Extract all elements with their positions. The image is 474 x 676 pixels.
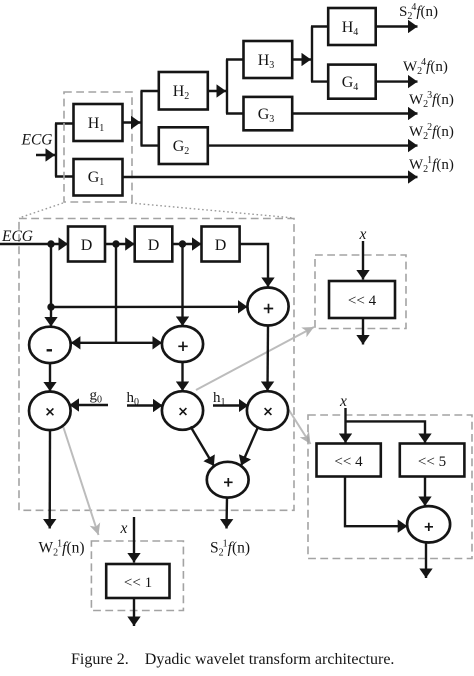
svg-text:W22f(n): W22f(n) (409, 122, 454, 142)
wire A3 output S2^1 (225, 498, 228, 529)
wire G1 output arrow (123, 176, 418, 178)
delay D1 (68, 227, 105, 262)
wire tap after D2 to adder A2 (181, 244, 183, 326)
svg-text:<< 4: << 4 (334, 454, 363, 470)
wire H2 output arrow (208, 90, 226, 92)
svg-text:<< 1: << 1 (124, 575, 152, 591)
wire shifter <<5 to adder A4 (424, 477, 426, 507)
wire M3 to adder A3 diagonal (241, 427, 258, 466)
filter G4 (328, 65, 376, 99)
wire H1 output arrow (123, 121, 141, 123)
dashed box shifter1 (91, 541, 183, 611)
svg-text:S21f(n): S21f(n) (210, 539, 250, 559)
wire D1 to D2 (105, 243, 135, 245)
node junction dot 3 (179, 240, 186, 247)
wire splitter to H2/G2 (141, 91, 159, 146)
label S2^4 f(n) (399, 2, 438, 22)
delay D3 (202, 227, 240, 262)
wire H4 output arrow (376, 25, 418, 27)
wire G4 output arrow (376, 80, 418, 82)
wire G3 output arrow (292, 112, 417, 114)
gray callout arrow M1 to shifter1 (62, 423, 99, 535)
wire G2 output arrow (208, 144, 418, 146)
svg-text:x: x (339, 393, 347, 410)
subtractor S1 (-) (29, 327, 71, 363)
gray callout arrow M2 to shifter4 (196, 327, 314, 390)
wire g0 into M1 (70, 404, 109, 406)
wire tap x(n) down (50, 244, 52, 327)
multiplier M2 (x h0) (162, 391, 203, 430)
wire splitter to H3/G3 (226, 60, 244, 114)
filter H1 (74, 104, 123, 141)
wire splitter to H1/G1 (55, 124, 74, 177)
dashed box shifter4 (315, 255, 406, 329)
wire adder A4 output (425, 543, 427, 579)
label W2^1 f(n) top (409, 155, 454, 175)
label x (shifter4 input) (359, 226, 367, 243)
filter H2 (159, 72, 208, 110)
wire tap after D1 down (115, 244, 117, 343)
shifter <<1 block (106, 564, 169, 598)
node junction dot 4 (47, 303, 54, 310)
label h1 (213, 390, 226, 408)
filter H4 (328, 8, 376, 45)
svg-text:Figure 2. Dyadic wavelet tr: Figure 2. Dyadic wavelet transform archi… (71, 651, 394, 668)
label S2^1 f(n) bottom (210, 539, 250, 559)
label x (shifter1 input) (120, 520, 128, 537)
svg-text:S24f(n): S24f(n) (399, 2, 438, 22)
wire x into shifter <<4 (bottom) (344, 408, 346, 443)
filter G2 (159, 127, 208, 164)
label g0 (90, 388, 103, 406)
wire h0 into M2 (127, 404, 163, 406)
dotted leader left (19, 203, 63, 218)
svg-text:<< 4: << 4 (348, 293, 377, 309)
wire x into shifter1 (133, 517, 135, 563)
filter G1 (74, 159, 123, 196)
dotted leader right (131, 203, 294, 218)
wire into subtractor (left arrow) (71, 342, 116, 344)
filter H3 (244, 41, 293, 78)
wire M2 to adder A3 diagonal (191, 427, 214, 466)
label ECG (detail input) (1, 228, 33, 245)
wire h1 into M3 (213, 404, 248, 406)
svg-text:W24f(n): W24f(n) (403, 57, 448, 77)
wire into adder A2 (right arrow) (116, 342, 162, 344)
label ECG (top input) (21, 132, 53, 149)
wire shifter <<4 to adder A4 (345, 477, 407, 527)
svg-text:<< 5: << 5 (418, 454, 446, 470)
wire x(n) to adder A1 (51, 306, 247, 309)
wire H3 output arrow (292, 58, 311, 60)
delay D2 (135, 227, 173, 262)
wire M1 output W2^1 (49, 430, 52, 528)
wire adder A1 to multiplier M3 (266, 325, 269, 391)
svg-text:D: D (215, 237, 227, 254)
shifter <<4 block (bottom) (317, 444, 381, 477)
svg-text:W21f(n): W21f(n) (409, 155, 454, 175)
wire D3 to adder A1 (240, 244, 268, 287)
caption Figure 2 (71, 651, 394, 668)
svg-text:x: x (359, 226, 367, 243)
multiplier M3 (x h1) (247, 391, 288, 430)
wire shifter1 output (133, 598, 135, 626)
svg-text:W23f(n): W23f(n) (409, 90, 454, 110)
label W2^4 f(n) (403, 57, 448, 77)
dashed box shifter45 (308, 415, 472, 559)
label h0 (127, 390, 140, 408)
adder A4 (shift-add +) (407, 506, 450, 542)
wire D2 to D3 (172, 243, 201, 245)
node junction dot 2 (112, 240, 119, 247)
node junction dot 1 (47, 240, 54, 247)
svg-text:ECG: ECG (21, 132, 53, 149)
svg-text:x: x (120, 520, 128, 537)
adder A1 (top right +) (247, 288, 288, 326)
gray callout arrow M3 to shifter45 (287, 407, 311, 444)
shifter <<5 block (400, 444, 465, 477)
wire ECG line to D1 (0, 243, 68, 245)
wire ECG input arrow (36, 154, 55, 156)
label W2^1 f(n) bottom (39, 539, 85, 559)
filter G3 (244, 97, 293, 130)
wire branch to shifter <<5 (346, 421, 426, 443)
svg-text:W21f(n): W21f(n) (39, 539, 85, 559)
label W2^3 f(n) (409, 90, 454, 110)
wire subtractor to multiplier M1 (49, 363, 51, 391)
wire adder A2 to multiplier M2 (181, 362, 183, 391)
label W2^2 f(n) (409, 122, 454, 142)
wire shifter4 output (362, 318, 364, 345)
svg-text:D: D (148, 237, 160, 254)
dashed box around H1 G1 (64, 92, 132, 202)
svg-text:ECG: ECG (1, 228, 33, 245)
adder A3 (bottom +) (207, 462, 249, 498)
label x (shifter45 input) (339, 393, 347, 410)
multiplier M1 (x g0) (29, 392, 71, 431)
wire x into shifter4 (362, 241, 364, 280)
adder A2 (middle +) (162, 326, 203, 362)
big dashed box (architecture detail) (19, 219, 294, 511)
shifter <<4 block (329, 281, 395, 318)
svg-text:D: D (81, 237, 93, 254)
wire splitter to H4/G4 (311, 27, 328, 82)
